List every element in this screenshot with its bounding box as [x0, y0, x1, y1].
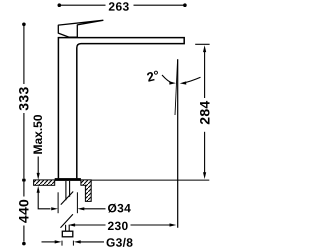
- dimension line bottom segment: [23, 226, 25, 242]
- dimension 263 right dot: [183, 3, 187, 7]
- dimension 230 left arrow: [68, 223, 75, 226]
- svg-text:230: 230: [107, 219, 128, 233]
- 2 degree arc right with arrow: [183, 77, 201, 83]
- G3/8 fitting box: [62, 231, 73, 237]
- dimension 263 line left segment: [61, 4, 106, 6]
- hose neck right line: [68, 225, 70, 231]
- Max.50 lower arrow (up) with leader to diameter line: [37, 186, 40, 193]
- svg-text:2°: 2°: [145, 67, 161, 85]
- faucet handle lever: [58, 20, 103, 37]
- hose break slash lower: [61, 214, 73, 228]
- dimension bottom dot (hose end level): [22, 242, 26, 246]
- dimension 284 lower segment and bottom arrow (down): [204, 132, 206, 173]
- hose neck left line: [65, 225, 67, 231]
- hose break slash upper: [61, 192, 73, 205]
- counter left slab (hatched): [34, 180, 55, 185]
- svg-text:440: 440: [16, 199, 32, 223]
- svg-text:284: 284: [196, 100, 212, 124]
- svg-text:333: 333: [16, 86, 32, 110]
- dimension top dot (handle level): [22, 23, 26, 27]
- G3/8 left arrow: [42, 241, 56, 243]
- counter right section (hatched L-shape): [81, 180, 91, 202]
- 2 degree arc left with arrow: [162, 75, 173, 83]
- G3/8 right arrow and leader: [74, 240, 81, 243]
- diameter 34 right arrow and leader: [78, 207, 85, 210]
- dimension 284 top tick: [195, 43, 209, 45]
- threaded stud left line: [65, 181, 67, 200]
- dimension 263 line right segment: [134, 4, 184, 6]
- counter surface line to the right: [91, 179, 209, 181]
- dimension line segment below counter dot: [23, 182, 25, 197]
- dimension 333-440 shared line top segment: [23, 26, 25, 84]
- faucet body outline (column + spout): [58, 38, 184, 179]
- dimension middle dot (counter level): [22, 178, 26, 182]
- dimension 263 left dot: [58, 3, 62, 7]
- dimension 284 top arrow (up): [203, 45, 206, 52]
- svg-text:263: 263: [108, 0, 129, 14]
- G3/8 extension tick right: [72, 241, 74, 246]
- diameter 34 extension line right: [76, 192, 78, 213]
- svg-text:Max.50: Max.50: [31, 114, 45, 154]
- Max.50 upper arrow (down): [37, 157, 39, 175]
- G3/8 extension tick left: [61, 241, 63, 246]
- 2 degree tilted line: [175, 59, 178, 115]
- dimension line segment between 333 and counter dot: [23, 113, 25, 178]
- water stream axis line: [177, 59, 179, 228]
- dimension 230 right segment and arrow: [131, 224, 171, 226]
- svg-text:G3/8: G3/8: [106, 236, 133, 250]
- svg-text:Ø34: Ø34: [107, 201, 131, 215]
- diameter 34 extension line left: [57, 192, 59, 213]
- threaded stud right line: [69, 181, 71, 197]
- diameter 34 left arrow: [51, 207, 58, 210]
- base flange: [55, 178, 81, 181]
